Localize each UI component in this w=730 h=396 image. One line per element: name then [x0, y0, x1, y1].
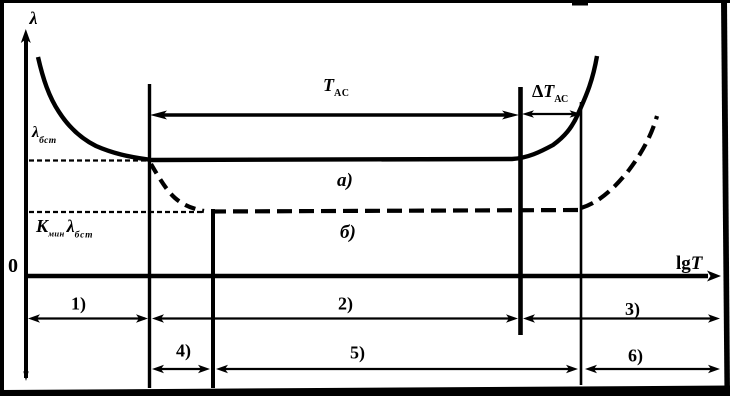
svg-text:0: 0	[8, 255, 18, 277]
curve b left descent (dashed)	[151, 164, 204, 211]
x-axis	[27, 271, 721, 282]
svg-text:lgT: lgT	[676, 253, 704, 274]
curve b right rise (dashed)	[581, 116, 657, 208]
vertical line x=149	[148, 84, 151, 388]
svg-text:λ: λ	[29, 8, 38, 28]
curve a (solid)	[38, 56, 597, 160]
svg-text:4): 4)	[176, 341, 191, 362]
svg-text:5): 5)	[350, 343, 365, 364]
range arrow 1	[28, 314, 148, 322]
vertical thick line x=520	[518, 87, 523, 335]
range arrow 5	[216, 365, 578, 373]
range arrow 6	[585, 365, 720, 373]
svg-text:а): а)	[337, 170, 353, 191]
curve b plateau (dashed)	[211, 210, 578, 212]
svg-text:3): 3)	[625, 299, 640, 320]
svg-text:2): 2)	[338, 294, 353, 315]
frame border bottom	[0, 386, 730, 396]
range arrow 3	[523, 314, 720, 322]
dashed level line lambda_bst	[29, 159, 147, 161]
dimension arrow dT_AC	[522, 110, 582, 118]
frame border left	[0, 0, 4, 396]
vertical thin line x=581	[580, 102, 583, 385]
dimension arrow T_AC	[150, 111, 519, 120]
y-axis	[21, 29, 31, 381]
frame border top	[0, 0, 730, 3]
dashed level line Kmin*lambda_bst	[29, 211, 204, 213]
frame border right	[721, 0, 730, 396]
svg-text:6): 6)	[628, 346, 643, 367]
range arrow 4	[152, 365, 210, 373]
vertical line x=213	[211, 209, 215, 388]
svg-text:1): 1)	[71, 294, 86, 315]
range arrow 2	[152, 314, 518, 322]
svg-text:б): б)	[340, 222, 356, 243]
